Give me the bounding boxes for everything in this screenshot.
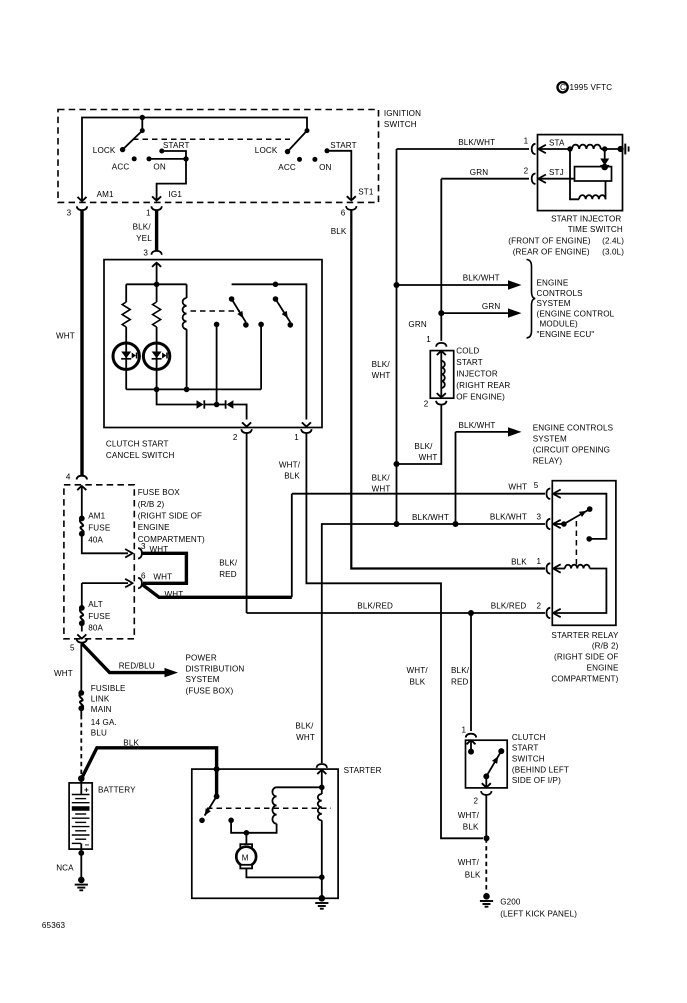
svg-text:LOCK: LOCK xyxy=(93,146,116,155)
svg-text:(3.0L): (3.0L) xyxy=(602,248,624,257)
svg-text:ACC: ACC xyxy=(112,163,130,172)
contact dropper 2 xyxy=(258,322,264,390)
wire GRN to STJ xyxy=(441,178,529,180)
svg-text:STJ: STJ xyxy=(549,168,564,177)
svg-text:4: 4 xyxy=(66,473,71,482)
switch blade cancel A xyxy=(229,296,246,322)
LED indicator middle xyxy=(143,343,169,369)
connector cold start pin 2 xyxy=(436,401,447,405)
svg-text:(RIGHT REAR: (RIGHT REAR xyxy=(456,381,510,390)
wire motor feed xyxy=(245,833,247,845)
svg-text:RED/BLU: RED/BLU xyxy=(119,662,155,671)
connector STJ xyxy=(532,173,536,184)
wire diode row to pin 2 xyxy=(233,405,246,420)
arrow clutch exit xyxy=(482,773,491,787)
svg-text:BLK: BLK xyxy=(465,870,481,879)
svg-text:FUSIBLE: FUSIBLE xyxy=(91,684,126,693)
svg-text:BLK/WHT: BLK/WHT xyxy=(458,138,495,147)
svg-text:80A: 80A xyxy=(88,623,103,632)
node START contact left xyxy=(159,149,164,154)
mechanical link starter dashed xyxy=(207,807,331,809)
svg-text:RED: RED xyxy=(219,570,237,579)
arrow IG1 exit xyxy=(152,196,161,200)
svg-text:BLK/WHT: BLK/WHT xyxy=(459,421,496,430)
mechanical link dashed xyxy=(133,138,290,140)
starter box xyxy=(192,769,338,898)
wire diode row xyxy=(157,389,197,404)
wire cancel bottom rail xyxy=(126,388,261,390)
svg-text:1: 1 xyxy=(426,335,431,344)
svg-text:ENGINE CONTROLS: ENGINE CONTROLS xyxy=(533,424,614,433)
wire BLK battery to starter xyxy=(82,748,217,778)
connector relay pin 5 xyxy=(547,488,551,499)
arrow clutch entry xyxy=(467,740,476,751)
svg-text:ALT: ALT xyxy=(88,600,103,609)
svg-text:INJECTOR: INJECTOR xyxy=(456,369,498,378)
coil starter pull winding xyxy=(318,794,322,820)
svg-text:"ENGINE ECU": "ENGINE ECU" xyxy=(537,330,595,339)
starter relay box xyxy=(552,481,616,626)
arrow STJ entry xyxy=(539,175,546,183)
connector relay pin 2 xyxy=(547,608,551,619)
wire ON to IG1 junction xyxy=(149,158,186,160)
svg-text:SYSTEM: SYSTEM xyxy=(537,299,571,308)
switch blade ignition right LOCK xyxy=(285,128,310,154)
svg-text:3: 3 xyxy=(67,208,72,217)
wire STA branch down xyxy=(570,149,579,199)
wire fuse pin 5 down xyxy=(80,644,82,692)
node right rail junction xyxy=(273,282,279,288)
connector STA xyxy=(532,144,536,155)
coil time switch upper xyxy=(572,145,601,149)
node clutch contact xyxy=(468,749,474,755)
wire ST1 route xyxy=(327,151,351,201)
wire AM1 to fuse box xyxy=(80,210,83,476)
svg-text:RELAY): RELAY) xyxy=(533,457,563,466)
wire lower coil to contact box xyxy=(605,181,607,199)
svg-text:WHT: WHT xyxy=(165,590,184,599)
svg-text:COMPARTMENT): COMPARTMENT) xyxy=(551,674,618,683)
cold start injector box xyxy=(430,351,453,399)
connector AM1 pin 3 xyxy=(77,206,88,210)
LED indicator left xyxy=(113,343,139,369)
svg-text:BLK/WHT: BLK/WHT xyxy=(412,513,449,522)
svg-text:ENGINE: ENGINE xyxy=(587,664,619,673)
node bottom rail coil xyxy=(184,387,190,393)
switch blade relay xyxy=(561,506,592,526)
svg-text:WHT/: WHT/ xyxy=(279,461,301,470)
svg-text:POWER: POWER xyxy=(186,654,217,663)
svg-text:BLK/: BLK/ xyxy=(133,222,152,231)
connector cancel pin 1 xyxy=(301,429,312,433)
case ground time switch xyxy=(618,144,629,155)
node coil out junction xyxy=(602,146,607,151)
arrow relay pin 3 entry xyxy=(553,520,560,528)
arrow cancel entry xyxy=(152,263,161,285)
coil relay xyxy=(565,565,590,569)
arrow cancel pin 2 exit xyxy=(242,422,251,426)
wire ST1 BLK to starter relay pin 1 xyxy=(351,210,545,569)
wire cancel right rail xyxy=(232,284,307,419)
diode time switch xyxy=(600,149,609,170)
svg-text:BLK/WHT: BLK/WHT xyxy=(490,513,527,522)
svg-text:(FRONT OF ENGINE): (FRONT OF ENGINE) xyxy=(508,237,591,246)
wire GRN vertical xyxy=(440,179,442,341)
svg-text:WHT/: WHT/ xyxy=(407,666,429,675)
svg-text:1995 VFTC: 1995 VFTC xyxy=(570,83,613,92)
coil cold start injector xyxy=(441,361,445,388)
connector IG1 pin 1 xyxy=(151,206,162,210)
node starter coil junction xyxy=(319,785,325,791)
wire COR branch vertical xyxy=(455,432,457,524)
coil cancel switch xyxy=(183,284,187,389)
arrow cold start entry top xyxy=(437,351,446,362)
svg-text:FUSE: FUSE xyxy=(88,612,111,621)
svg-text:2: 2 xyxy=(537,602,542,611)
wire WHT riser to relay pin 5 xyxy=(291,494,293,598)
node ECU branch xyxy=(394,282,400,288)
svg-text:IG1: IG1 xyxy=(169,190,183,199)
wire WHT fuse loop xyxy=(142,553,187,583)
node STA junction xyxy=(567,146,572,151)
svg-text:CONTROLS: CONTROLS xyxy=(537,289,584,298)
svg-text:START INJECTOR: START INJECTOR xyxy=(551,214,621,223)
svg-text:1: 1 xyxy=(294,433,299,442)
svg-text:CLUTCH: CLUTCH xyxy=(512,733,546,742)
svg-text:6: 6 xyxy=(341,209,346,218)
svg-text:SWITCH: SWITCH xyxy=(512,755,545,764)
svg-text:TIME SWITCH: TIME SWITCH xyxy=(568,225,623,234)
connector starter xyxy=(317,764,328,768)
wire arrow to circuit opening relay xyxy=(456,427,522,436)
clutch start switch box xyxy=(466,740,508,788)
arrow relay pin 2 entry xyxy=(553,609,560,617)
svg-text:BLK: BLK xyxy=(463,822,479,831)
node relay fixed contact xyxy=(586,536,592,542)
svg-text:BLK/: BLK/ xyxy=(451,666,470,675)
svg-text:BLK/: BLK/ xyxy=(219,559,238,568)
wire coil to case ground xyxy=(601,148,620,150)
svg-text:NCA: NCA xyxy=(56,863,74,872)
connector fuse pin 5 xyxy=(77,639,88,643)
svg-text:FUSE BOX: FUSE BOX xyxy=(138,488,181,497)
svg-text:3: 3 xyxy=(537,512,542,521)
wire BLK/WHT horizontal to relay pin 3 xyxy=(322,524,545,763)
wire BLK/WHT to STA xyxy=(397,148,530,150)
svg-text:WHT/: WHT/ xyxy=(458,811,480,820)
coil time switch lower xyxy=(579,195,605,199)
svg-text:1: 1 xyxy=(537,557,542,566)
svg-text:65363: 65363 xyxy=(42,921,66,930)
connector cancel pin 2 xyxy=(241,429,252,433)
svg-text:C: C xyxy=(560,83,566,92)
svg-text:40A: 40A xyxy=(88,535,103,544)
svg-text:(REAR OF ENGINE): (REAR OF ENGINE) xyxy=(513,248,590,257)
svg-text:WHT: WHT xyxy=(54,669,73,678)
node IG1 junction xyxy=(183,156,188,161)
fusible link MAIN 14 GA xyxy=(78,690,84,711)
svg-text:COMPARTMENT): COMPARTMENT) xyxy=(138,535,205,544)
svg-text:ON: ON xyxy=(153,163,165,172)
svg-text:3: 3 xyxy=(143,249,148,258)
svg-text:START: START xyxy=(163,141,190,150)
svg-text:(RIGHT SIDE OF: (RIGHT SIDE OF xyxy=(138,512,202,521)
coil starter hold winding xyxy=(272,787,276,823)
diode cancel left xyxy=(197,400,217,408)
node GRN branch xyxy=(438,310,444,316)
wire dashed to battery xyxy=(80,709,82,777)
svg-text:BLK/RED: BLK/RED xyxy=(357,602,393,611)
bimetal contact box xyxy=(575,167,612,181)
svg-text:AM1: AM1 xyxy=(88,511,105,520)
svg-text:M: M xyxy=(242,853,249,862)
svg-text:1: 1 xyxy=(524,136,529,145)
connector ST1 pin 6 xyxy=(346,206,357,210)
svg-text:−: − xyxy=(85,840,90,849)
svg-text:LINK: LINK xyxy=(91,694,110,703)
fuse box dashed xyxy=(64,485,134,639)
svg-text:GRN: GRN xyxy=(470,168,488,177)
node starter ground junction xyxy=(319,874,325,880)
svg-text:1: 1 xyxy=(462,725,467,734)
node clutch ground junction xyxy=(484,835,490,841)
battery plates xyxy=(72,795,90,844)
node ignition feed junction xyxy=(140,115,145,120)
clutch start cancel switch box xyxy=(104,260,322,428)
node solenoid contact B xyxy=(199,818,205,824)
svg-text:BLU: BLU xyxy=(91,729,107,738)
arrow cancel pin 1 exit xyxy=(302,422,311,426)
svg-text:BLK: BLK xyxy=(331,227,347,236)
node motor rail junction xyxy=(244,830,250,836)
resistor left branch xyxy=(122,284,130,389)
svg-text:START: START xyxy=(512,744,539,753)
node ACC contact left xyxy=(132,156,137,161)
svg-text:BLK: BLK xyxy=(284,472,300,481)
svg-text:CLUTCH START: CLUTCH START xyxy=(106,440,169,449)
node BLK/RED branch to clutch switch xyxy=(468,610,474,616)
svg-text:(RIGHT SIDE OF: (RIGHT SIDE OF xyxy=(554,653,618,662)
copyright symbol xyxy=(558,82,568,92)
wire left switch drop xyxy=(141,118,143,131)
svg-text:BATTERY: BATTERY xyxy=(98,785,136,794)
svg-text:+: + xyxy=(84,786,89,795)
arrow cold start exit bottom xyxy=(437,388,446,397)
svg-text:BLK: BLK xyxy=(511,557,527,566)
arrow STA entry xyxy=(539,145,546,153)
connector cancel pin 3 xyxy=(151,251,162,255)
svg-text:FUSE: FUSE xyxy=(88,523,111,532)
start injector time switch box xyxy=(538,135,623,211)
svg-text:START: START xyxy=(330,141,357,150)
svg-text:14 GA.: 14 GA. xyxy=(91,718,117,727)
fuse AM1 40A xyxy=(79,516,85,537)
wire BLK/RED horizontal xyxy=(247,612,545,614)
wire clutch pin 2 down xyxy=(485,795,487,839)
connector fuse box pin 4 xyxy=(77,476,88,480)
wire relay contact feed xyxy=(552,494,606,539)
wire cancel pin 1 WHT/BLK down xyxy=(306,433,483,838)
wire BLK/WHT vertical trunk xyxy=(396,149,398,524)
wire ALT branch xyxy=(81,583,83,606)
svg-text:2: 2 xyxy=(233,433,238,442)
wire BLK/RED to clutch start switch xyxy=(470,613,472,731)
svg-text:BLK/: BLK/ xyxy=(372,473,391,482)
switch blade cancel B xyxy=(273,296,291,322)
switch blade starter solenoid xyxy=(202,794,219,818)
wire AM1 fuse to pin 3 xyxy=(82,534,128,553)
arrow fuse box entry xyxy=(77,486,86,518)
svg-text:BLK: BLK xyxy=(123,738,139,747)
svg-text:DISTRIBUTION: DISTRIBUTION xyxy=(186,664,245,673)
wire motor return xyxy=(246,868,321,877)
node ACC contact right xyxy=(297,157,302,162)
svg-text:(FUSE BOX): (FUSE BOX) xyxy=(186,687,234,696)
wire RED/BLU to power distribution xyxy=(82,644,178,678)
wire starter feed to solenoid pivot xyxy=(215,769,218,796)
svg-text:WHT/: WHT/ xyxy=(458,858,480,867)
svg-text:WHT: WHT xyxy=(296,733,315,742)
wire ignition feed top xyxy=(82,118,307,202)
ground battery xyxy=(75,877,88,891)
svg-text:CANCEL SWITCH: CANCEL SWITCH xyxy=(106,451,175,460)
svg-text:WHT: WHT xyxy=(419,453,438,462)
wire motor rail to hold coil xyxy=(246,824,276,833)
contact dropper 1 xyxy=(214,322,220,405)
svg-text:OF ENGINE): OF ENGINE) xyxy=(456,392,505,401)
svg-text:2: 2 xyxy=(424,399,429,408)
svg-text:(LEFT KICK PANEL): (LEFT KICK PANEL) xyxy=(500,909,577,918)
svg-text:MODULE): MODULE) xyxy=(540,320,579,329)
svg-text:WHT: WHT xyxy=(372,371,391,380)
svg-text:5: 5 xyxy=(534,481,539,490)
wire contact M to motor rail xyxy=(231,820,246,833)
svg-text:WHT: WHT xyxy=(372,485,391,494)
connector clutch pin 1 xyxy=(466,734,477,738)
wire relay pin 3 stub xyxy=(552,523,564,525)
node trunk injector join xyxy=(394,461,400,467)
node cancel top rail junction xyxy=(154,282,160,288)
svg-text:ENGINE: ENGINE xyxy=(537,279,569,288)
wire WHT output diagonal xyxy=(142,584,292,597)
svg-text:RED: RED xyxy=(451,678,469,687)
wire cancel left rail xyxy=(126,283,186,285)
wire pull winding to ground xyxy=(321,820,323,896)
node COR branch join xyxy=(453,521,459,527)
svg-text:SWITCH: SWITCH xyxy=(384,120,417,129)
wire IG1 route xyxy=(157,159,186,201)
svg-text:(R/B 2): (R/B 2) xyxy=(592,642,619,651)
arrow relay pin 1 entry xyxy=(553,564,560,572)
node cancel contact B xyxy=(288,322,294,328)
connector clutch pin 2 xyxy=(481,791,492,795)
svg-text:ST1: ST1 xyxy=(358,187,374,196)
svg-text:(R/B 2): (R/B 2) xyxy=(138,500,165,509)
svg-text:STA: STA xyxy=(549,138,565,147)
wire dashed to G200 xyxy=(485,838,487,893)
node ON contact left xyxy=(147,156,152,161)
connector cold start pin 1 xyxy=(436,343,447,347)
svg-text:MAIN: MAIN xyxy=(91,705,112,714)
motor M1 xyxy=(236,844,256,868)
svg-text:(2.4L): (2.4L) xyxy=(602,237,624,246)
ground starter xyxy=(315,895,328,909)
wire relay coil return xyxy=(552,569,606,614)
connector relay pin 1 xyxy=(547,563,551,574)
wire cold start to BLK/WHT trunk xyxy=(397,405,442,465)
node bottom rail middle xyxy=(154,387,160,393)
svg-text:GRN: GRN xyxy=(482,302,500,311)
svg-text:(CIRCUIT OPENING: (CIRCUIT OPENING xyxy=(533,446,610,455)
node battery negative xyxy=(78,850,84,856)
wire STJ stub xyxy=(538,178,575,180)
node starter feed junction xyxy=(214,766,220,772)
ground G200 xyxy=(480,893,493,907)
arrow fuse pin 6 exit xyxy=(82,579,133,587)
wire relay pin 1 stub xyxy=(552,568,565,570)
svg-text:SYSTEM: SYSTEM xyxy=(533,435,567,444)
svg-text:SYSTEM: SYSTEM xyxy=(186,675,220,684)
wire battery negative xyxy=(80,843,82,877)
switch blade ignition left LOCK xyxy=(120,128,145,152)
svg-text:SIDE OF I/P): SIDE OF I/P) xyxy=(512,776,561,785)
switch blade clutch xyxy=(486,748,504,776)
node BLK/WHT trunk join xyxy=(394,521,400,527)
mechanical link cancel dashed xyxy=(191,310,241,312)
svg-text:BLK/: BLK/ xyxy=(414,442,433,451)
svg-text:ON: ON xyxy=(319,163,331,172)
fuse ALT 80A xyxy=(79,605,85,626)
svg-text:STARTER RELAY: STARTER RELAY xyxy=(551,631,619,640)
wire battery positive stub xyxy=(80,776,82,794)
svg-text:WHT: WHT xyxy=(56,331,75,340)
wire STA stub xyxy=(538,148,571,150)
svg-text:BLK: BLK xyxy=(410,678,426,687)
battery box xyxy=(69,783,92,849)
svg-text:(ENGINE CONTROL: (ENGINE CONTROL xyxy=(537,309,615,318)
connector fuse pin 3 xyxy=(138,548,142,559)
svg-text:BLK/WHT: BLK/WHT xyxy=(463,274,500,283)
svg-text:(BEHIND LEFT: (BEHIND LEFT xyxy=(512,765,569,774)
svg-text:YEL: YEL xyxy=(136,234,152,243)
arrow fuse pin 3 exit xyxy=(125,549,132,557)
resistor middle branch xyxy=(153,284,161,389)
node diode row junction xyxy=(214,402,220,408)
mechanical link relay dashed xyxy=(575,521,577,566)
node START contact right xyxy=(325,148,330,153)
svg-text:BLK/: BLK/ xyxy=(372,360,391,369)
svg-text:IGNITION: IGNITION xyxy=(384,109,421,118)
wire START to IG1 junction xyxy=(162,151,186,159)
svg-text:ENGINE: ENGINE xyxy=(138,523,170,532)
wire arrow to engine controls system ECM xyxy=(397,280,522,289)
svg-text:LOCK: LOCK xyxy=(255,146,278,155)
svg-text:2: 2 xyxy=(474,797,479,806)
wire starter top rail xyxy=(277,786,322,788)
connector relay pin 3 xyxy=(547,519,551,530)
svg-text:STARTER: STARTER xyxy=(344,766,382,775)
svg-text:AM1: AM1 xyxy=(97,190,114,199)
wire arrow GRN to ECM xyxy=(441,308,521,317)
svg-text:START: START xyxy=(456,358,483,367)
node cancel contact A xyxy=(243,322,249,328)
ignition switch box xyxy=(58,110,379,203)
svg-text:BLK/RED: BLK/RED xyxy=(491,602,527,611)
diode cancel right xyxy=(217,400,234,408)
node battery positive xyxy=(78,775,85,782)
svg-text:WHT: WHT xyxy=(153,573,172,582)
wire IG1 to cancel switch xyxy=(155,210,158,251)
